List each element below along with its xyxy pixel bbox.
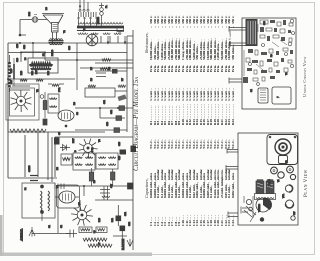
capacitor C18 C19 [120, 146, 136, 154]
node heading-capacitors [144, 178, 149, 198]
node title-caption [133, 77, 140, 171]
wire ht-rails [101, 30, 133, 250]
resistor R14 hum coil [32, 15, 38, 23]
node plan-view-box [238, 133, 298, 225]
tube V6 output [71, 204, 93, 225]
wire lower-grid [55, 183, 133, 210]
capacitor gang-under [246, 20, 257, 46]
node heading-resistances [144, 32, 149, 53]
node AERIAL [29, 227, 77, 238]
transformer IFT3 [96, 153, 118, 169]
node table-resistances [2, 10, 4, 125]
transformer IFT1 [48, 94, 59, 113]
node plan-labels [259, 160, 296, 215]
wire tuning-rail [8, 176, 57, 181]
node volume-control [285, 185, 295, 220]
inductor L6 L7 [83, 238, 112, 247]
transformer T2 [49, 39, 64, 45]
transformer under-blocks [258, 87, 291, 104]
capacitor tuning-gang lines [25, 132, 55, 182]
tube V4 [57, 185, 80, 208]
node chassis-parts [243, 20, 293, 83]
wire plan-shafts [226, 148, 238, 218]
wire mid-grid [45, 43, 133, 97]
tube V5 rectifier [86, 34, 98, 46]
node mains-input [78, 0, 97, 27]
speaker LS [42, 14, 64, 39]
wire [19, 20, 56, 44]
resistor R10 R11 [79, 227, 107, 233]
node schematic-labels [11, 5, 131, 245]
tube V2 IF-amp [58, 110, 74, 127]
node drive-assembly [241, 196, 272, 222]
tube V1 frequency-changer [11, 90, 32, 112]
capacitor C28 electrolytic [10, 55, 15, 92]
node caption-plan-view [303, 169, 309, 197]
wire top-bus [8, 43, 133, 178]
resistor ht-feed [95, 27, 133, 74]
resistor R9 [89, 168, 115, 186]
node junction-dots [7, 42, 119, 187]
node under-chassis-view-box [242, 18, 296, 109]
node footnote [228, 30, 232, 45]
tube V3 [79, 139, 98, 158]
capacitor C21 C22 [116, 216, 125, 231]
inductor L-field [21, 52, 58, 73]
speaker plan-plate [267, 135, 298, 165]
resistor mid-row [75, 94, 133, 132]
inductor L4 wave-wound [8, 129, 105, 133]
transformer plan-mains [255, 180, 276, 200]
diode D1 [60, 145, 70, 151]
wire earth-leads [113, 205, 127, 240]
node screen-box [6, 84, 39, 120]
transformer aerial-coil [22, 183, 55, 221]
lamp PL [99, 3, 104, 27]
resistor R3 [40, 92, 47, 125]
ground EARTH [127, 239, 133, 247]
transformer IFT2 [73, 153, 95, 170]
node table-capacitors [2, 131, 4, 226]
resistor R12 R13 row [8, 79, 75, 90]
tube plan-valves [271, 166, 296, 179]
resistor R8 box [61, 154, 72, 165]
capacitor C9 [55, 138, 60, 144]
wire chassis-shafts [229, 26, 246, 84]
node caption-under-chassis [302, 56, 307, 97]
wire v4-drop [58, 186, 75, 233]
node chassis-labels [251, 20, 288, 92]
wire bus-pair [8, 121, 133, 137]
node chassis-circles [244, 19, 295, 85]
